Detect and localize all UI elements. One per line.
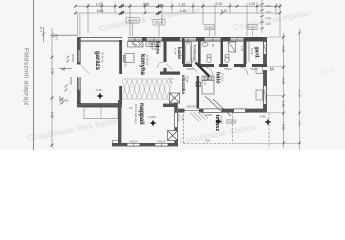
svg-text:120/150: 120/150	[227, 120, 237, 124]
minor extension lines between chains	[101, 3, 103, 14]
svg-text:14,2 m²: 14,2 m²	[221, 73, 224, 81]
svg-text:előszoba: előszoba	[181, 75, 186, 94]
gard divider wall	[244, 38, 247, 64]
svg-text:90/150: 90/150	[158, 139, 166, 143]
junction double-slash marks at x=121 and x=158	[119, 4, 161, 14]
svg-text:1,40: 1,40	[240, 46, 244, 52]
extension line x=203	[202, 4, 204, 26]
ticks right dim line 1	[282, 36, 285, 145]
svg-text:-0.15: -0.15	[95, 88, 102, 92]
left lower dim cluster	[61, 98, 64, 105]
kamra west wall	[164, 40, 167, 62]
window: kitchen 2 (146-162)	[146, 37, 162, 41]
window nappali 1	[127, 143, 140, 146]
svg-text:kazán: kazán	[177, 47, 182, 60]
solid jamb pieces of top wall	[142, 37, 267, 41]
kazán divider wall	[182, 38, 185, 64]
nappali SW corner step	[112, 141, 118, 147]
top-right stacked dim numbers	[266, 4, 272, 26]
extra small tick marks row A	[101, 5, 258, 7]
window in right wall (86-104)	[263, 86, 267, 104]
svg-text:3,55: 3,55	[205, 139, 211, 143]
extension line x=88	[87, 4, 89, 34]
svg-text:90/150: 90/150	[71, 54, 75, 62]
svg-text:kamra: kamra	[156, 42, 161, 55]
dimension tick marks row B	[74, 12, 77, 15]
door swings hall	[167, 64, 249, 75]
right dim vertical line 2	[299, 28, 301, 150]
paper noise overlay	[0, 0, 345, 150]
nappali east wall	[174, 100, 178, 146]
svg-text:1,40: 1,40	[181, 116, 185, 122]
sliding door diagonals (terrace door)	[205, 96, 222, 112]
window label box 180/240	[126, 18, 257, 37]
svg-text:60/60: 60/60	[206, 25, 213, 29]
short wall chunk west of nappali east wall	[163, 104, 175, 107]
garage entry gap in top wall	[122, 36, 127, 41]
right exterior wall (x 263..267)	[263, 37, 268, 112]
benchmark outside SE corner	[259, 115, 272, 126]
window: wc (204-222)	[205, 37, 223, 41]
left wall exterior dim cluster 2	[65, 85, 68, 92]
svg-text:75/210: 75/210	[224, 67, 232, 71]
svg-text:16,35: 16,35	[297, 90, 301, 97]
svg-text:3.85: 3.85	[143, 2, 150, 6]
svg-text:20,16 m²: 20,16 m²	[101, 52, 105, 62]
left wall exterior dim cluster 1	[67, 56, 70, 63]
svg-text:2,40: 2,40	[169, 78, 173, 84]
svg-text:2.10: 2.10	[216, 2, 223, 6]
glazed door opening with mid line	[185, 110, 200, 112]
terrace steps hatch	[190, 113, 208, 122]
left dim vertical line	[51, 28, 53, 148]
bottom wall of middle+háló section	[178, 96, 267, 116]
extension line x=280	[279, 4, 281, 37]
garage bottom wall	[77, 104, 122, 108]
bed in háló	[202, 76, 214, 94]
fürdő divider wall	[198, 38, 201, 64]
top-right stacked dim line	[260, 0, 264, 33]
sprinkled small dimension texts (hall & rooms)	[62, 44, 258, 143]
window: gard (230-244)	[231, 37, 245, 41]
svg-text:140/240: 140/240	[186, 105, 196, 109]
svg-text:12,42 m²: 12,42 m²	[146, 55, 150, 65]
nappali bottom wall	[112, 143, 178, 146]
svg-text:5.76: 5.76	[50, 68, 54, 74]
svg-text:gard.: gard.	[254, 47, 260, 60]
pillar NE of nappali (X-braced)	[170, 93, 180, 103]
roof overhang dashed line right	[268, 113, 270, 148]
extension lines to right dims	[233, 37, 302, 144]
svg-text:3.35: 3.35	[281, 124, 285, 130]
stairs between konyha and nappali (zig-zag band)	[122, 79, 174, 99]
top dimension chain line A	[76, 3, 281, 37]
svg-text:32,5 m² (am.kony.): 32,5 m² (am.kony.)	[134, 104, 137, 124]
svg-text:-0.45: -0.45	[259, 115, 266, 119]
pillar SE of nappali (X-braced)	[168, 131, 178, 141]
dimension tick marks row A	[74, 5, 281, 15]
svg-text:garázs: garázs	[94, 51, 100, 71]
kitchen counter	[123, 42, 160, 63]
kamra shelves	[152, 41, 156, 49]
svg-text:180/240: 180/240	[128, 19, 138, 23]
step pad outside garage (below)	[84, 107, 118, 118]
svg-text:75/210: 75/210	[186, 67, 194, 71]
frame line (title block separator)	[33, 0, 35, 150]
svg-text:8,2 m²: 8,2 m²	[186, 76, 189, 83]
terrace door window 1	[203, 109, 222, 112]
svg-text:12: 12	[129, 106, 133, 110]
ticks on left dim line	[51, 56, 54, 147]
előszoba/háló wall	[197, 76, 200, 109]
left corner dim cluster above garage	[42, 27, 77, 42]
svg-text:M: M	[270, 67, 274, 72]
bathtub (fürdőszoba)	[185, 42, 192, 64]
svg-text:1.00: 1.00	[249, 2, 256, 6]
svg-text:2.95: 2.95	[281, 78, 285, 84]
benchmark terasz	[205, 113, 222, 125]
window label box 90/240	[153, 20, 165, 26]
extension lines from garage NW corner up to dim rows	[78, 14, 80, 36]
svg-text:5.10: 5.10	[221, 9, 228, 13]
door leaf line garage side door	[81, 65, 90, 74]
dimension numbers row A	[96, 2, 256, 13]
svg-text:90/150: 90/150	[130, 139, 138, 143]
svg-text:3,4 m²: 3,4 m²	[250, 48, 253, 55]
svg-text:1.15: 1.15	[281, 101, 285, 107]
svg-text:terasz: terasz	[214, 115, 220, 132]
svg-text:75/210: 75/210	[250, 67, 258, 71]
window nappali 2	[155, 143, 168, 146]
window in right wall (42-54)	[263, 42, 267, 54]
toilet (wc room)	[207, 55, 211, 63]
terrace door window 2	[234, 109, 246, 112]
svg-text:1.25: 1.25	[180, 9, 187, 13]
extension line x=247	[246, 4, 248, 37]
terrace dashed outline	[184, 113, 270, 149]
left wall door marker M	[59, 66, 72, 71]
svg-text:90/240: 90/240	[177, 114, 181, 122]
gardrób rail	[248, 41, 250, 62]
door gap right wall	[263, 64, 268, 70]
svg-text:60/60: 60/60	[249, 25, 256, 29]
window label box (gard window)	[248, 25, 257, 30]
svg-text:konyha: konyha	[139, 54, 145, 76]
svg-text:90/150: 90/150	[69, 77, 73, 85]
watermark tile 1 (top centre)	[27, 5, 335, 146]
extension line x=215	[214, 4, 216, 37]
svg-text:0.60: 0.60	[266, 16, 272, 20]
extension line x=276	[275, 4, 277, 16]
washbasin (wc room)	[202, 42, 208, 46]
wc divider wall	[221, 38, 224, 64]
svg-text:90/240: 90/240	[155, 21, 163, 25]
door gap (garage side door)	[76, 65, 81, 78]
svg-text:1.50: 1.50	[266, 10, 272, 14]
door post X-box in hall	[196, 82, 201, 87]
svg-text:4,1 m²: 4,1 m²	[174, 48, 177, 55]
left exterior wall (x 77..80.5, y 37..107)	[76, 37, 89, 107]
top exterior wall (y 37..40.5)	[77, 36, 267, 41]
svg-text:1.35: 1.35	[39, 26, 43, 32]
svg-text:12,6 m²: 12,6 m²	[220, 116, 223, 124]
svg-text:1.20: 1.20	[266, 22, 272, 26]
svg-text:6.30: 6.30	[50, 112, 54, 118]
svg-text:+0.00: +0.00	[148, 115, 156, 119]
shower (second bath)	[229, 42, 236, 52]
hall diagonal wall	[196, 63, 210, 77]
extension line x=130	[129, 4, 131, 37]
svg-text:0.90: 0.90	[266, 4, 272, 8]
svg-text:5.85: 5.85	[97, 9, 104, 13]
svg-text:1.15: 1.15	[96, 2, 103, 6]
svg-text:60/60: 60/60	[62, 99, 69, 103]
benchmark nappali	[148, 115, 157, 127]
konyha south wall	[160, 72, 180, 75]
svg-text:1.10: 1.10	[179, 2, 186, 6]
window in left wall (78-90)	[78, 78, 80, 90]
svg-text:1,10: 1,10	[203, 80, 207, 86]
svg-text:2.90: 2.90	[281, 46, 285, 52]
svg-text:háló: háló	[215, 72, 221, 84]
svg-text:1,70: 1,70	[190, 58, 194, 64]
wardrobe along háló east wall	[256, 67, 263, 74]
window in nappali east wall	[175, 113, 178, 128]
right dim vertical line 1	[283, 33, 285, 148]
svg-text:0.30: 0.30	[55, 34, 59, 40]
window in left wall (50-62)	[78, 50, 80, 62]
nappali left wall	[118, 100, 121, 144]
window label box (wc window)	[205, 25, 214, 30]
nightstand háló east wall	[256, 90, 263, 100]
svg-text:1,15: 1,15	[124, 62, 128, 68]
top dimension chain line B	[76, 12, 281, 14]
interior wall garage/konyha (x 119..122)	[119, 40, 122, 104]
benchmark garage	[95, 88, 104, 100]
kitchen table	[125, 54, 134, 63]
extension line x=162	[161, 4, 163, 26]
svg-text:4,85: 4,85	[297, 120, 301, 126]
window: kitchen (128-142)	[128, 37, 142, 41]
window: bath (180-196)	[180, 37, 196, 41]
toilet (second)	[225, 55, 229, 63]
svg-text:nappali: nappali	[138, 103, 145, 125]
hall north wall (y 64..67)	[183, 64, 267, 67]
svg-text:Földszinti alaprajz: Földszinti alaprajz	[23, 48, 30, 106]
